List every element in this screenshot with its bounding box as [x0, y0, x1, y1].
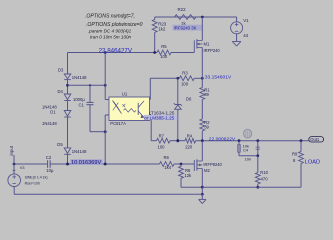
svg-text:U1: U1	[122, 91, 128, 96]
svg-text:.OPTIONS numdgt=7,: .OPTIONS numdgt=7,	[85, 13, 135, 19]
svg-text:IRFP9240: IRFP9240	[203, 162, 222, 167]
svg-text:IRF9240 3K: IRF9240 3K	[174, 25, 197, 30]
svg-text:39: 39	[204, 125, 209, 130]
svg-text:22.000622V: 22.000622V	[209, 136, 236, 142]
svg-text:PC817A: PC817A	[110, 121, 126, 126]
svg-text:R9: R9	[292, 151, 298, 156]
svg-text:1k4: 1k4	[164, 165, 171, 170]
svg-text:M1: M1	[204, 41, 210, 46]
svg-text:220: 220	[185, 144, 193, 149]
svg-text:R22: R22	[178, 7, 187, 12]
svg-text:Rser=100: Rser=100	[25, 181, 40, 185]
svg-text:.param DC 4 903(4)1: .param DC 4 903(4)1	[88, 29, 132, 34]
svg-text:C4: C4	[243, 148, 249, 153]
svg-text:D6: D6	[186, 97, 192, 102]
svg-text:1N4148: 1N4148	[42, 121, 57, 126]
svg-text:D3: D3	[58, 67, 64, 72]
svg-text:D4: D4	[58, 89, 64, 94]
svg-text:22.846427V: 22.846427V	[99, 48, 133, 55]
svg-text:100: 100	[158, 144, 166, 149]
svg-text:44: 44	[243, 33, 248, 38]
svg-text:12k: 12k	[184, 173, 192, 178]
svg-text:10n: 10n	[245, 156, 252, 161]
svg-text:V3: V3	[20, 166, 25, 170]
svg-text:SINE(0 1.4 1k): SINE(0 1.4 1k)	[25, 176, 48, 180]
svg-text:R3: R3	[182, 70, 188, 75]
svg-text:10.016369V: 10.016369V	[71, 160, 101, 166]
svg-text:R10: R10	[260, 170, 268, 175]
svg-text:10µ: 10µ	[46, 168, 54, 173]
svg-text:1k2: 1k2	[158, 27, 166, 32]
svg-text:Out1: Out1	[310, 137, 320, 142]
svg-text:33.154601V: 33.154601V	[205, 75, 232, 81]
svg-text:LOAD: LOAD	[305, 159, 320, 165]
svg-text:R7: R7	[159, 133, 165, 138]
svg-text:C2: C2	[46, 155, 52, 160]
svg-text:D1: D1	[50, 109, 56, 114]
svg-text:C1: C1	[79, 103, 85, 108]
svg-text:or LM385-1.25: or LM385-1.25	[144, 115, 174, 120]
svg-text:.OPTIONS plotwinsize=0: .OPTIONS plotwinsize=0	[86, 22, 143, 28]
svg-text:39: 39	[204, 92, 209, 97]
svg-text:1000µ: 1000µ	[73, 97, 85, 102]
svg-text:1N4148: 1N4148	[72, 149, 87, 154]
svg-text:D5: D5	[57, 142, 63, 147]
svg-text:tran 0 10m 5m 100n: tran 0 10m 5m 100n	[90, 34, 132, 39]
svg-text:100: 100	[181, 81, 189, 86]
svg-text:100: 100	[160, 54, 168, 59]
svg-text:R4: R4	[187, 133, 193, 138]
svg-text:R5: R5	[161, 44, 167, 49]
svg-text:M2: M2	[204, 168, 210, 173]
svg-text:R6: R6	[164, 155, 170, 160]
svg-text:V1: V1	[243, 18, 249, 23]
svg-text:IRFP240: IRFP240	[204, 48, 221, 53]
svg-text:input: input	[9, 145, 14, 155]
svg-text:470: 470	[261, 177, 269, 182]
svg-text:1N4148: 1N4148	[72, 75, 87, 80]
